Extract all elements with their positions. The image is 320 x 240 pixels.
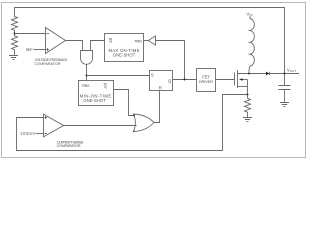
svg-text:Q: Q	[168, 79, 172, 84]
wire MAX one-shot Qbar to AND gate input B	[91, 41, 105, 51]
svg-text:DRIVER: DRIVER	[199, 79, 213, 84]
ground GND3 (sense resistor)	[243, 118, 252, 122]
wire feedback: VOUT rail up and across to divider top	[15, 8, 285, 74]
node sense junction	[247, 94, 249, 96]
label plus U9	[45, 116, 48, 119]
wire diode cathode to VOUT	[270, 73, 300, 75]
inductor L1	[249, 16, 254, 74]
diode D1	[266, 72, 270, 76]
svg-text:VOUT: VOUT	[287, 67, 296, 73]
svg-text:Q: Q	[104, 83, 108, 88]
svg-text:COMPARATOR: COMPARATOR	[35, 62, 61, 66]
transistor Q1 source stub	[238, 86, 248, 88]
wire OR gate output up to latch R input	[154, 91, 160, 123]
resistor R2 (lower divider)	[12, 34, 18, 56]
gate U7 OR	[134, 114, 155, 132]
resistor R3 current sense	[245, 95, 251, 118]
gate U2 AND (pointing down)	[81, 51, 93, 65]
svg-text:VIN: VIN	[246, 11, 252, 17]
label plus U1	[47, 48, 50, 51]
wire latch Q up to buffer input	[156, 41, 185, 80]
wire REF to U1 non-inverting input	[34, 49, 46, 51]
svg-text:REF: REF	[26, 47, 34, 52]
one-shot U5 MIN-ON-TIME box	[79, 81, 114, 106]
node FB (divider tap)	[14, 33, 16, 35]
wire U3 TRIG from buffer output	[144, 40, 149, 42]
latch U6 S-R flip-flop box	[150, 71, 173, 91]
op-amp U9 current-sense comparator	[44, 114, 64, 137]
wire U2 output down to MIN one-shot TRIG	[86, 65, 88, 81]
resistor R1 (upper divider)	[12, 16, 18, 33]
wire driver output to Q1 gate	[216, 79, 235, 81]
svg-text:S: S	[151, 73, 154, 78]
svg-text:ONE-SHOT: ONE-SHOT	[113, 52, 136, 57]
label minus U9	[45, 133, 48, 135]
node VOUT junction	[284, 73, 286, 75]
wire current-sense loop to U9 input	[17, 95, 248, 151]
wire FB tap to U1 inverting input	[15, 33, 46, 35]
box U8 FET DRIVER	[197, 69, 216, 92]
transistor Q1 gate plate	[234, 73, 236, 86]
wire latch Q to FET driver	[173, 79, 197, 81]
wire U9 output to OR gate input B	[64, 125, 137, 127]
svg-text:COMPARATOR: COMPARATOR	[57, 144, 81, 148]
svg-text:100mV: 100mV	[20, 131, 35, 136]
label minus U1	[47, 33, 50, 35]
node U2 output junction	[86, 75, 88, 77]
transistor Q1 drain stub / switch-node rail	[238, 73, 266, 75]
node Q junction	[184, 79, 186, 81]
transistor Q1 body arrow	[243, 79, 248, 81]
ground GND2 (output cap)	[280, 103, 289, 107]
wire U1 output to AND gate input A	[66, 41, 83, 51]
border frame	[2, 3, 306, 158]
svg-text:TRIG: TRIG	[134, 38, 142, 43]
buffer U4 (pointing left)	[148, 36, 155, 45]
wire 100mV reference to U9 inverting input	[36, 133, 44, 135]
wire Q1 source down to sense node	[247, 80, 249, 95]
node inductor / rail junction	[248, 73, 250, 75]
capacitor C1 (output)	[279, 74, 291, 103]
wire junction to latch S input	[87, 75, 150, 77]
node OR input B corner	[133, 130, 135, 132]
svg-text:ONE-SHOT: ONE-SHOT	[83, 98, 106, 103]
wire U5 Qbar to OR gate input A	[114, 90, 135, 116]
svg-text:Q: Q	[109, 38, 113, 43]
transistor Q1 channel plate	[237, 70, 239, 88]
one-shot U3 MAX ON-TIME box	[105, 34, 144, 62]
svg-text:R: R	[159, 85, 162, 90]
ground GND1 (divider)	[9, 56, 18, 60]
op-amp U1 voltage-feedback comparator	[46, 28, 66, 54]
node OR input A junction	[133, 114, 135, 116]
svg-text:TRIG: TRIG	[82, 83, 90, 88]
